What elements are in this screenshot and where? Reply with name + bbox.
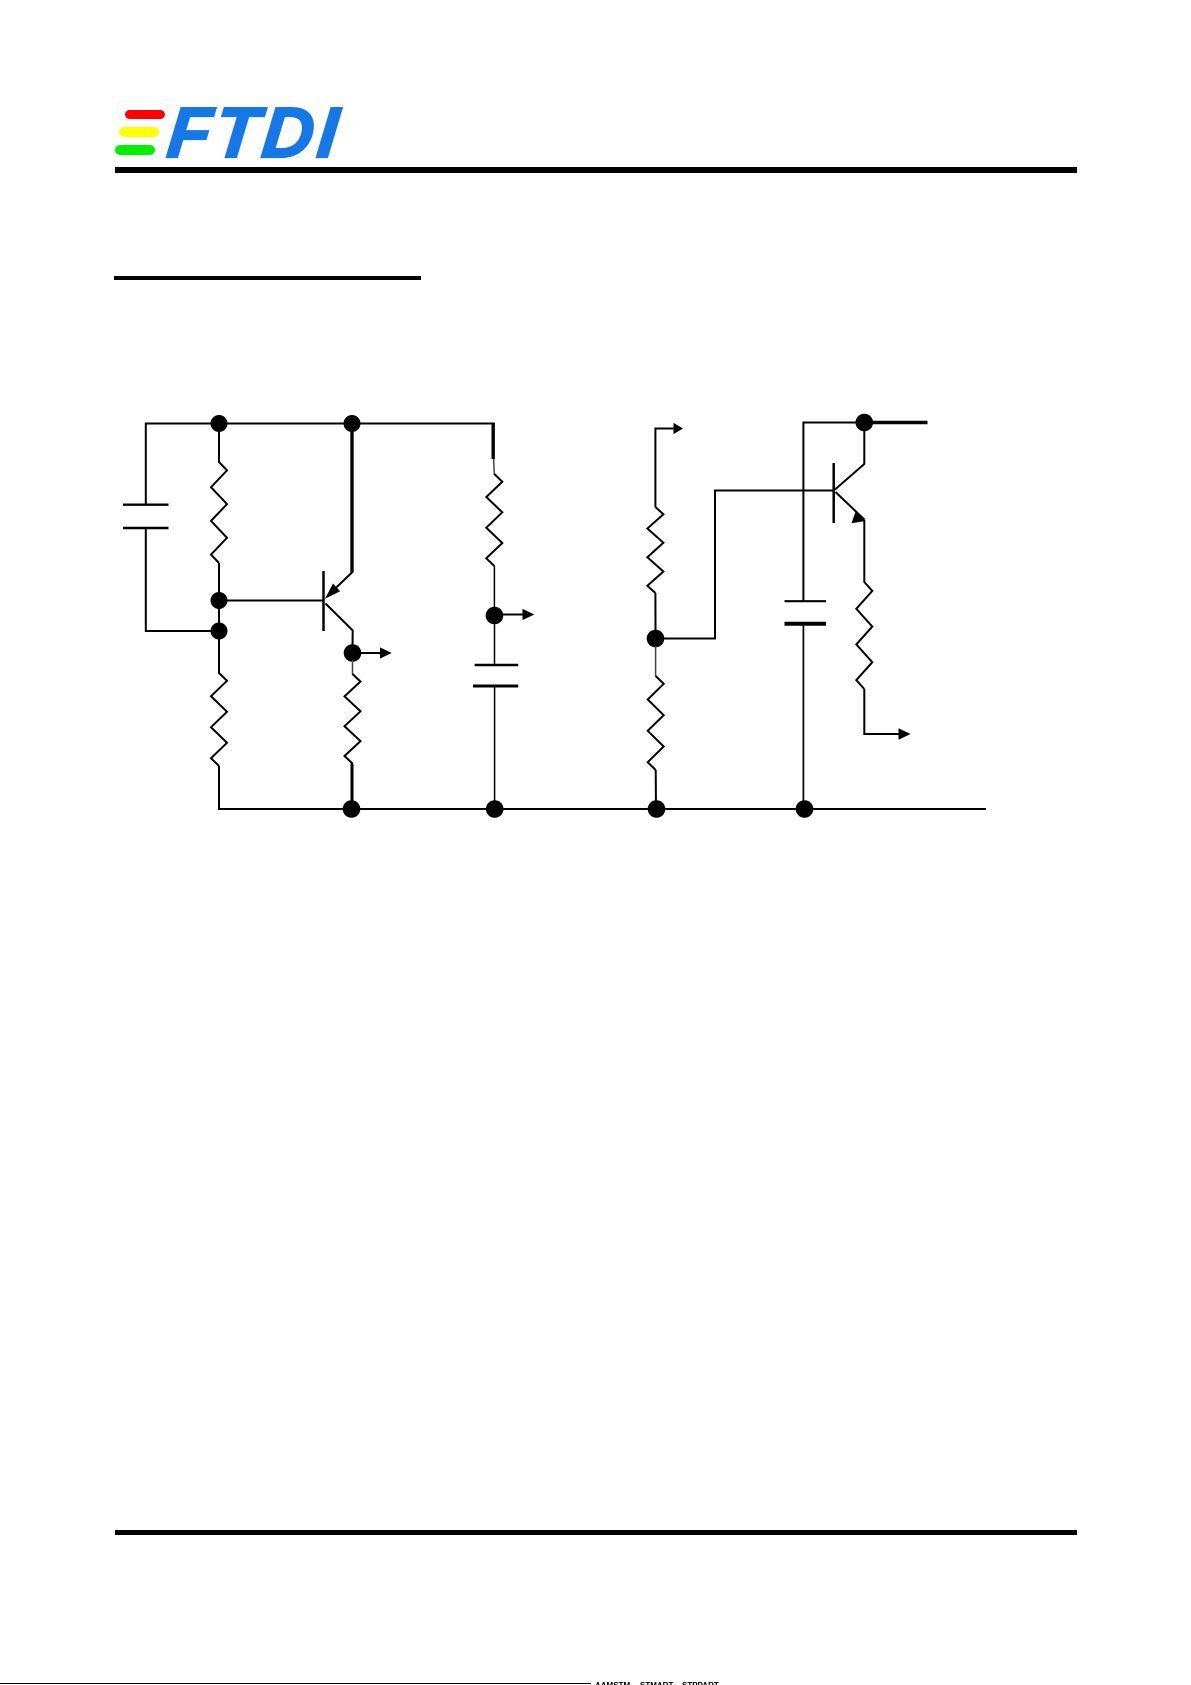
capacitor C3 [785,601,827,624]
wire: R2 top lead [218,631,220,674]
transistor Q2 (NPN) [834,463,865,523]
node: ground rail dot at C3 [796,800,814,818]
wire: R4 bottom lead [493,566,495,608]
arrow: emitter output test point [899,728,911,740]
wire: R6 top lead [655,646,657,677]
wire: R6 bottom lead [655,770,657,810]
footer clipped text [595,1681,755,1685]
wire: C2 top lead [494,623,496,665]
arrow: right circuit V+ input arrow [655,423,683,507]
wire: Q2 emitter lead [863,520,865,583]
resistor R4 [486,474,502,566]
wire: R2 bottom lead to ground rail [218,766,220,810]
wire: R1 bottom lead [218,563,220,601]
resistor R1 [211,462,227,563]
resistor R7 [856,582,872,689]
node: divider node dot [647,630,665,648]
footer rule [115,1530,1077,1536]
wire: R3 bottom lead (bold) [351,764,354,810]
wire: R3 top lead [352,660,354,675]
logo green bar [115,145,155,156]
node: right supply rail dot [856,414,874,432]
logo red bar [125,110,165,120]
wire: left circuit top supply rail [146,423,493,425]
wire: R4 top lead thin part [493,459,496,475]
wire: Q1 emitter supply lead (bold) [350,424,353,573]
capacitor C1 [123,505,169,528]
wire: Q2 base wire from divider node [656,491,834,639]
wire: Q1 collector lead [352,630,354,648]
transistor Q1 (PNP) [324,571,353,631]
wire: Q1 base wire [219,600,324,602]
header rule [115,167,1077,173]
node: supply rail dot at Q1 [344,415,361,432]
node: R4/C2 junction dot [486,607,504,625]
resistor R2 [211,673,227,766]
arrow: Q1 output test point [353,647,392,658]
resistor R6 [648,676,664,770]
capacitor C2 [473,665,518,686]
wire: R1 top lead [218,424,220,463]
node: supply node dot at R1 top [211,415,228,432]
arrow: RC filter output test point [495,609,535,620]
wire: C1 top lead from rail corner [145,423,147,506]
wire: C1 bottom lead down and right to node B1 [146,528,219,631]
wire: R4 top lead (bold corner from rail) [492,423,495,460]
node: C1 return node dot [211,623,228,640]
wire: R7 output lead with corner [864,689,899,734]
heading underline [114,276,421,279]
wire: R5 bottom lead [654,593,656,631]
node: ground rail dot at C2 [486,800,504,818]
wire: right supply rail thin segment [803,422,864,424]
node: ground rail dot at R6 [648,800,666,818]
wire: C2 bottom lead [494,686,496,809]
wire: ground return rail [218,808,986,810]
node: Q1 output node dot [344,644,362,662]
footer baseline divider [0,1683,591,1685]
resistor R5 [647,507,663,593]
wire: C3 bottom lead [802,624,804,809]
wire: right supply rail bold segment [864,421,927,424]
wire: Q2 collector lead [863,423,865,465]
node: ground rail dot at R3 [343,800,361,818]
FTDI logo [113,100,348,162]
node: Q1 base node dot [211,592,228,609]
wire: C3 top lead from rail [802,422,804,602]
logo FTDI wordmark [164,93,373,175]
resistor R3 [345,674,361,764]
wire: link between base node and C1 return node [218,601,220,632]
logo yellow bar [119,127,159,138]
